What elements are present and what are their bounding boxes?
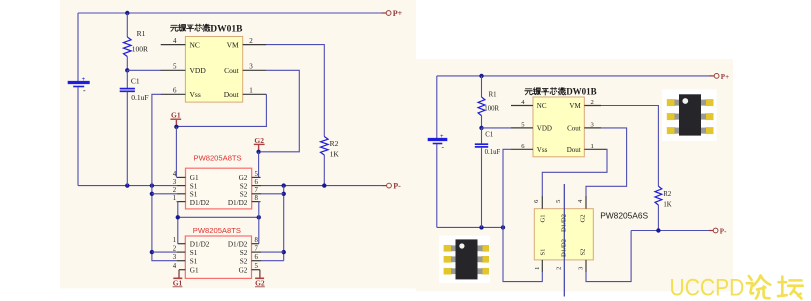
svg-text:2: 2 <box>249 37 253 45</box>
U2 pin 4 NC <box>511 105 533 107</box>
node S2 to Q1 pin7 <box>282 192 286 196</box>
svg-text:0.1uF: 0.1uF <box>485 149 501 156</box>
Q1 pin 3 S1 <box>177 185 186 187</box>
svg-text:7: 7 <box>255 187 259 194</box>
wire battery positive <box>77 13 79 81</box>
capacitor C2 <box>481 128 483 144</box>
node VDD junction <box>125 68 129 72</box>
right schematic background <box>416 59 733 291</box>
left schematic background <box>60 0 416 289</box>
U1 pin 1 Dout <box>243 93 267 95</box>
U2 pin 6 Vss <box>511 148 533 150</box>
svg-text:VDD: VDD <box>190 66 207 75</box>
svg-text:P+: P+ <box>393 9 403 18</box>
svg-text:S1: S1 <box>190 191 198 199</box>
svg-text:0.1uF: 0.1uF <box>131 93 148 102</box>
svg-text:2: 2 <box>173 246 177 253</box>
node G2 <box>256 150 260 154</box>
svg-text:3: 3 <box>578 267 585 270</box>
svg-text:D1/D2: D1/D2 <box>228 241 248 249</box>
terminal P+ <box>382 12 386 14</box>
wire B+ top rail <box>78 12 382 14</box>
Q2 pin 4 G1 <box>179 269 185 271</box>
Q3 pin 4 G2 <box>585 196 587 209</box>
svg-text:S1: S1 <box>540 249 547 256</box>
svg-text:P-: P- <box>393 182 401 191</box>
port G2 lower <box>259 270 261 278</box>
svg-text:G1: G1 <box>173 279 183 288</box>
chip package bottom left <box>439 236 490 283</box>
svg-text:2: 2 <box>173 187 177 194</box>
svg-text:D1/D2: D1/D2 <box>560 214 567 232</box>
wire B- rail to S1 <box>78 185 177 187</box>
Q2 pin 8 D1/D2 <box>252 243 259 245</box>
svg-text:D1/D2: D1/D2 <box>228 199 248 207</box>
Q1 pin 1 D1/D2 <box>177 201 186 203</box>
svg-text:G1: G1 <box>171 111 181 120</box>
svg-text:1K: 1K <box>663 202 671 209</box>
Q1 pin 7 S2 <box>252 193 261 195</box>
svg-text:S2: S2 <box>240 258 248 266</box>
svg-text:6: 6 <box>533 200 540 203</box>
svg-text:S2: S2 <box>579 249 586 256</box>
watermark chinese <box>747 276 770 299</box>
wire Vss down <box>152 94 177 260</box>
svg-text:Cout: Cout <box>567 125 581 133</box>
resistor R1 right <box>481 76 483 97</box>
terminal P- <box>382 185 386 187</box>
svg-text:3: 3 <box>249 63 253 71</box>
svg-text:6: 6 <box>255 179 259 186</box>
wire VDD right <box>482 127 512 129</box>
Q3 pin 3 S2 <box>585 260 587 272</box>
svg-text:2: 2 <box>556 267 563 270</box>
Q1 pin 5 G2 <box>252 176 261 178</box>
op-amp U1 DW01B body <box>185 37 242 103</box>
wire S2 to P- right <box>586 231 631 282</box>
U2 pin 5 VDD <box>511 127 533 129</box>
svg-text:+: + <box>82 76 86 83</box>
svg-text:-: - <box>83 86 86 95</box>
svg-text:S2: S2 <box>240 249 248 257</box>
svg-text:D1/D2: D1/D2 <box>190 199 210 207</box>
svg-text:G2: G2 <box>239 267 248 275</box>
svg-text:G1: G1 <box>540 214 547 222</box>
svg-text:VDD: VDD <box>537 125 552 133</box>
U1 title <box>170 25 177 31</box>
Q2 pin 3 S1 <box>177 260 186 262</box>
op-amp U2 DW01B body <box>533 97 584 157</box>
node VDD junction right <box>479 126 483 130</box>
wire P- rail <box>261 185 382 187</box>
node C1 bottom junction <box>125 183 129 187</box>
wire Vss down right <box>503 149 542 281</box>
Q1 pin 2 S1 <box>177 193 186 195</box>
Q2 pin 5 G2 <box>252 269 260 271</box>
wire D bus right <box>259 202 261 244</box>
node Vss to S1 pin2 <box>150 192 154 196</box>
svg-text:C1: C1 <box>131 77 140 86</box>
Q1 pin 6 S2 <box>252 185 261 187</box>
svg-text:S2: S2 <box>240 182 248 190</box>
resistor R1 <box>126 13 128 37</box>
U2 pin 1 Dout <box>584 148 606 150</box>
svg-text:S1: S1 <box>190 182 198 190</box>
node D bus right <box>257 215 261 219</box>
svg-text:6: 6 <box>255 254 259 261</box>
wire Dout to G1 right <box>542 149 607 196</box>
wire D bus left <box>177 202 178 244</box>
svg-text:VM: VM <box>569 102 581 110</box>
resistor R3 R2 <box>655 186 662 205</box>
wire G2 to gate <box>258 152 260 178</box>
svg-text:P+: P+ <box>721 73 729 81</box>
svg-text:5: 5 <box>255 171 259 178</box>
node R2 bottom <box>322 183 326 187</box>
wire Cout down <box>261 70 299 152</box>
svg-text:7: 7 <box>255 246 259 253</box>
svg-text:R2: R2 <box>663 191 672 198</box>
wire B- rail right <box>437 226 503 228</box>
Q1 pin 8 D1/D2 <box>252 201 261 203</box>
wire VDD <box>127 69 161 71</box>
svg-text:UCCPD: UCCPD <box>670 273 745 301</box>
svg-text:1K: 1K <box>330 150 340 159</box>
svg-text:G2: G2 <box>255 279 265 288</box>
wire VM to R2 <box>266 45 324 137</box>
Q2 pin 6 S2 <box>252 260 262 262</box>
transistor Q3 PW8205A6S body <box>534 209 593 260</box>
svg-text:R1: R1 <box>137 29 146 38</box>
wire Cout to G2 right <box>586 128 627 196</box>
svg-text:S1: S1 <box>190 258 198 266</box>
transistor Q1 PW8205A8TS body <box>186 168 252 209</box>
svg-text:3: 3 <box>173 254 177 261</box>
svg-text:8: 8 <box>255 237 259 244</box>
svg-text:8: 8 <box>255 195 259 202</box>
terminal P- right <box>709 230 713 232</box>
svg-text:G2: G2 <box>239 174 248 182</box>
svg-text:6: 6 <box>173 87 177 95</box>
node Vss junction on B- rail <box>150 183 154 187</box>
svg-text:PW8205A8TS: PW8205A8TS <box>194 153 242 162</box>
chip package top right <box>662 90 717 142</box>
wire battery negative right <box>436 144 438 227</box>
svg-text:100R: 100R <box>132 45 148 54</box>
wire G1 to gate <box>175 127 177 178</box>
U1 pin 3 Cout <box>243 69 267 71</box>
resistor R2 <box>321 137 329 156</box>
svg-text:DW01B: DW01B <box>566 87 597 97</box>
node Vss junction right <box>501 225 505 229</box>
svg-text:G2: G2 <box>254 136 264 145</box>
wire battery positive right <box>436 76 438 138</box>
U1 pin 5 VDD <box>161 69 186 71</box>
node S2 to Q2 pin7 <box>282 250 286 254</box>
Q1 pin 4 G1 <box>177 176 186 178</box>
svg-text:C1: C1 <box>485 132 493 139</box>
svg-text:Vss: Vss <box>190 90 201 99</box>
svg-text:G2: G2 <box>579 214 586 222</box>
wire D bus horizontal <box>178 216 259 218</box>
wire P- rail right <box>631 230 710 232</box>
svg-text:R1: R1 <box>489 91 497 98</box>
svg-text:1: 1 <box>534 267 541 270</box>
watermark UCCPD <box>670 273 745 301</box>
wire battery negative <box>77 87 79 186</box>
svg-text:Vss: Vss <box>537 146 548 154</box>
Q2 pin 7 S2 <box>252 251 262 253</box>
svg-text:S2: S2 <box>240 191 248 199</box>
battery B2 <box>428 138 448 141</box>
svg-text:Cout: Cout <box>224 66 240 75</box>
svg-text:5: 5 <box>173 63 177 71</box>
svg-text:1: 1 <box>173 237 176 244</box>
svg-text:Dout: Dout <box>567 146 581 154</box>
svg-text:VM: VM <box>227 40 239 49</box>
node D bus left <box>176 215 180 219</box>
svg-text:R2: R2 <box>330 139 339 148</box>
svg-text:G1: G1 <box>190 174 199 182</box>
svg-text:P-: P- <box>720 227 727 235</box>
svg-text:4: 4 <box>173 37 177 45</box>
svg-text:G1: G1 <box>190 267 199 275</box>
U2 title <box>525 89 533 95</box>
node C1 bottom junction right <box>479 225 483 229</box>
terminal P+ right <box>710 75 714 77</box>
svg-text:5: 5 <box>555 200 562 203</box>
wire VM to R2 right <box>601 106 658 187</box>
node S2 rail junction <box>282 183 286 187</box>
transistor Q2 PW8205A8TS body <box>185 236 251 278</box>
svg-text:4: 4 <box>173 263 177 270</box>
svg-text:3: 3 <box>173 179 177 186</box>
Q3 pin 6 G1 <box>541 196 543 209</box>
svg-text:4: 4 <box>173 171 177 178</box>
svg-text:5: 5 <box>255 263 259 270</box>
svg-text:1: 1 <box>591 143 594 150</box>
svg-text:1: 1 <box>173 195 176 202</box>
U1 pin 2 VM <box>243 44 267 46</box>
node B+ junction at R1 top <box>125 11 129 15</box>
battery B1 <box>68 81 90 84</box>
svg-text:PW8205A6S: PW8205A6S <box>600 210 648 220</box>
U1 pin 6 Vss <box>161 93 186 95</box>
U1 pin 4 NC <box>161 44 186 46</box>
svg-text:S1: S1 <box>190 249 198 257</box>
Q2 pin 1 D1/D2 <box>178 243 186 245</box>
svg-text:D1/D2: D1/D2 <box>560 239 567 257</box>
wire B+ top rail right <box>437 75 711 77</box>
node G1 <box>174 125 178 129</box>
capacitor C1 <box>126 70 128 88</box>
svg-text:2: 2 <box>591 99 594 106</box>
node R2 bottom right <box>656 228 660 232</box>
node Vss to Q2 S1 pin2 <box>150 250 154 254</box>
svg-text:DW01B: DW01B <box>210 24 243 34</box>
svg-text:PW8205A8TS: PW8205A8TS <box>193 226 241 235</box>
svg-text:1: 1 <box>249 87 253 95</box>
svg-text:100R: 100R <box>484 106 499 113</box>
svg-text:NC: NC <box>537 102 547 110</box>
svg-text:Dout: Dout <box>224 90 240 99</box>
svg-text:NC: NC <box>190 40 200 49</box>
wire S2 bus down <box>283 186 285 261</box>
port G1 lower <box>178 270 180 278</box>
node B+ junction at R1 top right <box>479 74 483 78</box>
Q3 pin 1 S1 <box>541 260 543 272</box>
svg-text:D1/D2: D1/D2 <box>190 241 210 249</box>
U2 pin 2 VM <box>584 105 601 107</box>
Q3 pin 5 D1/D2 line <box>563 184 565 297</box>
svg-text:+: + <box>440 134 444 140</box>
Q2 pin 2 S1 <box>177 251 186 253</box>
wire Dout to G1 <box>176 94 266 126</box>
U2 pin 3 Cout <box>584 127 601 129</box>
